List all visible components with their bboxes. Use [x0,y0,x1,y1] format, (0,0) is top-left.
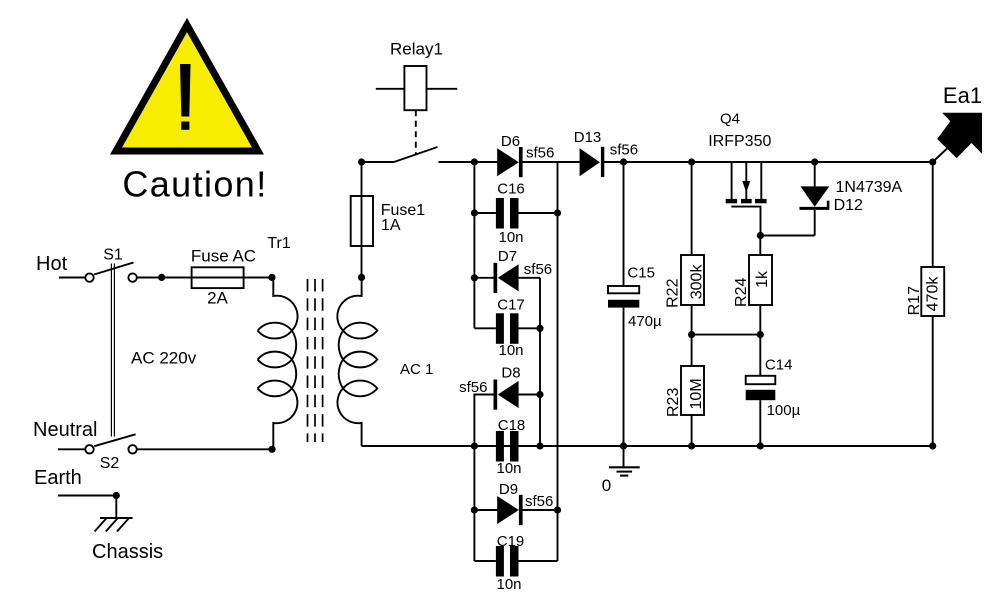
wire S2 to transformer [137,448,272,450]
svg-text:D6: D6 [501,133,520,150]
svg-text:R22: R22 [665,278,682,307]
svg-text:Neutral: Neutral [33,419,97,441]
relay switch contact [362,147,475,162]
svg-text:10n: 10n [498,229,523,246]
junction dot R17 bottom [929,442,936,449]
resistor R23 [681,335,704,446]
svg-text:Ea1: Ea1 [943,83,982,108]
svg-text:Chassis: Chassis [92,541,163,563]
svg-text:Earth: Earth [34,467,82,489]
wire earth down [115,496,117,519]
wire top rail [474,161,932,163]
svg-text:300k: 300k [688,264,705,300]
junction dot C17 right [536,325,543,332]
svg-text:C15: C15 [627,265,655,282]
junction dot C16 left [471,209,478,216]
junction dot R17 top [929,158,936,165]
ground symbol 0 [609,446,640,476]
svg-text:10M: 10M [688,378,705,409]
junction dot fuse1 bottom [358,274,365,281]
resistor R24 [749,236,772,335]
svg-text:sf56: sf56 [459,379,487,396]
junction dot D9 anode [471,506,478,513]
svg-text:Q4: Q4 [720,110,740,127]
wire neutral lead [58,448,85,450]
junction dot ground [620,442,627,449]
junction dot C18 left [471,442,478,449]
wire ladder right rail [557,162,559,561]
svg-text:Hot: Hot [36,253,68,275]
junction dot after S1 [158,274,165,281]
svg-text:0: 0 [602,476,611,495]
junction dot D7 cathode [471,274,478,281]
capacitor C14 [746,335,776,446]
resistor R17 [921,162,944,446]
transformer secondary winding [337,277,377,446]
junction dot R23 bottom [688,442,695,449]
wire Ea1 lead [933,149,947,163]
junction dot transformer primary bottom [268,446,275,453]
capacitor C17 [474,313,540,344]
svg-text:Tr1: Tr1 [267,235,291,252]
svg-text:R23: R23 [665,388,682,417]
svg-text:sf56: sf56 [610,142,638,159]
wire S1 to fuse [137,277,272,279]
wire ladder middle rail [539,278,541,446]
junction dot C18 right [536,442,543,449]
diode D7 [474,263,540,293]
svg-text:sf56: sf56 [525,493,553,510]
svg-text:C16: C16 [497,181,525,198]
svg-text:R17: R17 [906,286,923,315]
junction dot R24 bottom [757,331,764,338]
diode D13 [580,147,605,177]
svg-text:C18: C18 [498,417,526,434]
transformer core [308,279,323,442]
switch S2 [85,434,137,453]
capacitor C15 [608,162,639,446]
svg-text:1A: 1A [381,217,401,234]
wire hot lead [59,277,85,279]
output port Ea1 arrow [937,113,982,158]
diode D8 [474,380,540,447]
junction dot C16 right [554,209,561,216]
junction dot C14 bottom [757,442,764,449]
mechanical link S1-S2 [111,264,114,437]
svg-text:10n: 10n [498,342,523,359]
wire ladder left rail upper [473,162,475,328]
svg-text:R24: R24 [733,278,750,307]
svg-text:10n: 10n [496,460,521,477]
junction dot fuse1 top [358,158,365,165]
fuse Fuse1 [351,162,373,277]
junction dot D6 anode [471,158,478,165]
fuse Fuse AC [192,267,244,288]
junction dot earth [113,492,120,499]
svg-text:IRFP350: IRFP350 [708,133,771,150]
svg-text:100µ: 100µ [767,402,801,419]
svg-text:D13: D13 [574,129,602,146]
capacitor C19 [474,546,557,577]
zener diode D12 [800,162,830,236]
caution warning triangle [116,25,258,151]
svg-text:S1: S1 [103,247,123,264]
svg-text:D9: D9 [499,481,518,498]
svg-text:C19: C19 [497,533,525,550]
svg-text:470k: 470k [925,276,942,312]
svg-text:S2: S2 [100,455,120,472]
svg-text:C17: C17 [497,297,525,314]
relay Relay1 [376,66,457,154]
transistor Q4 [726,162,767,236]
svg-text:D7: D7 [498,248,517,265]
capacitor C16 [474,198,557,229]
svg-text:D12: D12 [834,197,863,214]
junction dot transformer primary top [268,274,275,281]
svg-text:470µ: 470µ [628,313,662,330]
wire earth lead [58,495,116,497]
transformer primary winding [258,277,298,449]
svg-text:Caution!: Caution! [122,164,267,205]
junction dot R22 bottom [688,331,695,338]
junction dot R22 top [688,158,695,165]
svg-text:Relay1: Relay1 [390,40,443,59]
junction dot Q4 source node [757,232,764,239]
svg-text:AC 220v: AC 220v [131,349,197,368]
diode D6 [497,147,522,177]
chassis ground symbol [95,518,133,532]
junction dot D9 right [554,506,561,513]
diode D9 [474,495,557,525]
resistor R22 [681,162,704,335]
capacitor C18 [496,431,519,462]
junction dot D8 anode [536,391,543,398]
wire bottom rail [362,445,933,447]
wire R22-R24 link [692,334,761,336]
svg-text:10n: 10n [496,576,521,593]
svg-text:1k: 1k [754,270,771,288]
svg-text:2A: 2A [207,289,228,308]
svg-text:1N4739A: 1N4739A [836,179,903,196]
svg-text:sf56: sf56 [526,145,554,162]
wire ladder left rail lower [473,446,475,561]
svg-text:Fuse AC: Fuse AC [191,247,256,266]
svg-text:sf56: sf56 [524,261,552,278]
wire Q4 to D12 [760,235,814,237]
switch S1 [85,263,137,282]
svg-text:C14: C14 [765,357,793,374]
junction dot D12 top [811,158,818,165]
svg-text:D8: D8 [501,365,520,382]
junction dot C15 top [620,158,627,165]
svg-text:AC 1: AC 1 [400,361,433,378]
